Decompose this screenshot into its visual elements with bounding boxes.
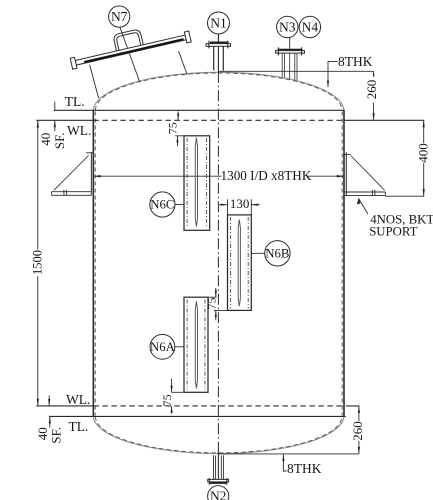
N6C inner dashed lines xyxy=(186,138,188,228)
svg-text:N2: N2 xyxy=(210,489,227,500)
label circle N6A xyxy=(150,334,175,359)
left support bracket top tick xyxy=(86,152,93,154)
nozzle N7 manway flange assembly (rotated) xyxy=(67,18,191,69)
N7 right end flange cap xyxy=(184,31,191,43)
label circle N6B xyxy=(265,241,290,266)
nozzle N7 circle xyxy=(109,6,130,27)
svg-text:SF.: SF. xyxy=(49,427,64,444)
left support bracket gusset diagonal xyxy=(54,155,89,190)
1500 bottom arrow xyxy=(37,399,39,406)
nozzle N1 circle xyxy=(208,12,230,34)
400 arrows xyxy=(423,120,425,127)
svg-text:260: 260 xyxy=(364,80,379,100)
nozzle N7 centerline leader xyxy=(120,27,140,81)
svg-text:1500: 1500 xyxy=(31,250,45,275)
nozzle N1 flange outline bar xyxy=(206,44,230,47)
N6A center pipe xyxy=(195,301,197,388)
svg-text:WL.: WL. xyxy=(67,123,91,138)
bottom tangent line TL xyxy=(49,415,346,417)
svg-text:N3: N3 xyxy=(279,20,296,35)
svg-text:TL.: TL. xyxy=(69,419,89,434)
svg-text:WL.: WL. xyxy=(66,392,90,407)
dimension 130 line segments xyxy=(219,204,227,206)
top TL label tick xyxy=(54,102,56,111)
nozzle N3/N4 flange dark bar xyxy=(278,49,303,51)
N7 left end flange cap xyxy=(70,57,77,69)
right support bracket base bolt ticks xyxy=(371,190,373,196)
vessel centerline lower solid part xyxy=(217,451,219,480)
75 N6C arrows xyxy=(177,114,179,121)
nozzle N3/N4 flange outline bar xyxy=(276,51,305,54)
nozzle N1 flange dark bar xyxy=(210,42,228,44)
N7 davit handle xyxy=(113,29,143,51)
svg-text:75: 75 xyxy=(166,122,180,134)
nozzle N7 neck left line xyxy=(90,65,99,99)
nozzle N2 circle xyxy=(208,486,229,500)
svg-text:75: 75 xyxy=(160,394,174,406)
bottom weld line WL right extension xyxy=(346,405,360,407)
nozzle N7 neck right line xyxy=(179,51,188,74)
svg-text:SF.: SF. xyxy=(52,132,67,149)
vessel centerline upper solid part xyxy=(217,34,219,72)
bottom weld line WL (dashed across vessel) xyxy=(93,405,344,407)
svg-text:N6B: N6B xyxy=(265,246,289,260)
75 bottom arrows xyxy=(171,386,173,393)
svg-text:260: 260 xyxy=(350,421,365,441)
nozzle N2 neck lines xyxy=(213,455,215,479)
N7 cover plate xyxy=(75,35,186,65)
40 bottom arrows xyxy=(48,399,50,406)
N6B inner dashed lines xyxy=(230,217,232,308)
nozzle N3/N4 neck lines xyxy=(281,53,283,77)
nozzle N1 flange bolt ticks xyxy=(208,41,210,49)
right support bracket plate xyxy=(345,152,347,195)
support leader line to 4NOS BKT SUPORT xyxy=(359,199,368,214)
dimension 75 at N6C top shafts xyxy=(177,112,179,121)
svg-text:SUPORT: SUPORT xyxy=(369,225,417,239)
bottom dished head outer curve xyxy=(93,416,344,453)
svg-text:N4: N4 xyxy=(302,20,319,35)
N6A top edge extension xyxy=(208,296,217,298)
vessel shell left wall xyxy=(92,110,94,416)
top dished head inner curve (dashed) xyxy=(95,73,342,110)
nozzle N3/N4 flange bolt ticks xyxy=(277,47,279,55)
top weld line WL (dashed across vessel) xyxy=(93,119,342,121)
svg-text:TL.: TL. xyxy=(65,94,85,109)
N6A leader xyxy=(175,346,184,348)
label 130 xyxy=(230,198,250,209)
8THK bottom leader xyxy=(283,455,286,472)
dimension 260 bottom line xyxy=(358,406,360,454)
8THK top leader xyxy=(328,61,338,86)
svg-text:1300 I/D x8THK: 1300 I/D x8THK xyxy=(221,168,312,183)
dimension 130 extension lines xyxy=(227,199,229,215)
N6C leader xyxy=(175,204,184,206)
dimension 75 at N6A bottom shafts xyxy=(171,379,173,393)
svg-text:8THK: 8THK xyxy=(338,54,373,69)
40 SF bottom dimension arrow shafts xyxy=(48,396,50,406)
bottom dished head inner curve (dashed) xyxy=(95,416,342,452)
nozzle N3 circle xyxy=(277,16,298,37)
label 260 bottom background xyxy=(353,421,363,441)
svg-text:400: 400 xyxy=(415,143,430,163)
left support bracket base bolt ticks xyxy=(63,190,65,195)
dimension 400 line xyxy=(423,120,425,196)
label 400 background xyxy=(418,143,428,163)
75 mid arrows xyxy=(215,291,217,298)
arrowheads xyxy=(37,71,425,461)
vessel shell left wall inner surface (dashed) xyxy=(94,112,96,416)
nozzle N1 neck lines xyxy=(213,46,215,70)
1500 top arrow xyxy=(37,120,39,127)
dimension 1300 I/D line xyxy=(93,175,344,177)
N6B center pipe xyxy=(238,220,240,307)
nozzle N2 flange dark bar xyxy=(210,482,227,484)
nozzle N2 flange bolt ticks xyxy=(208,478,210,485)
1300 right arrow xyxy=(337,175,344,177)
left support bracket plate xyxy=(90,152,92,195)
1300 left arrow xyxy=(93,175,100,177)
nozzle N3/N4 centerline below flange xyxy=(289,53,291,79)
top crown reference line xyxy=(218,70,373,72)
svg-text:8THK: 8THK xyxy=(287,461,322,476)
svg-text:130: 130 xyxy=(230,196,250,211)
dimension 1500 line xyxy=(37,120,39,406)
4NOS leader arrow xyxy=(357,198,361,205)
svg-text:N1: N1 xyxy=(210,16,227,31)
vessel centerline (dash-dot) xyxy=(217,72,219,451)
130 arrows xyxy=(221,204,228,206)
svg-text:N6A: N6A xyxy=(150,340,176,354)
N7 cover gasket thick line xyxy=(84,39,183,62)
vessel shell right wall inner surface (dashed) xyxy=(341,112,343,416)
label 260 top background xyxy=(367,77,377,103)
40 SF top dimension arrow shaft xyxy=(54,120,56,131)
dimension 260 top line xyxy=(373,71,375,120)
260 bottom arrows xyxy=(358,406,360,413)
internal pipe N6B rectangle xyxy=(228,215,252,311)
svg-text:N6C: N6C xyxy=(150,198,174,212)
dimension 75 between N6B and N6A shafts xyxy=(215,288,217,297)
N6B leader xyxy=(251,252,264,254)
right support bracket base plate xyxy=(344,191,385,193)
label 1300 I/D x8THK xyxy=(222,170,308,183)
260 top arrows xyxy=(373,71,375,78)
bottom weld line WL left extension xyxy=(36,405,93,407)
internal pipe N6C rectangle xyxy=(184,136,210,231)
top dished head outer curve xyxy=(93,72,344,110)
vessel shell right wall xyxy=(343,110,345,416)
svg-text:40: 40 xyxy=(38,133,53,146)
svg-text:75: 75 xyxy=(204,298,218,310)
left support bracket base plate xyxy=(52,191,92,193)
nozzle N2 flange outline bar xyxy=(208,479,229,482)
svg-text:N7: N7 xyxy=(111,9,128,24)
8THK bottom leader arrow xyxy=(282,454,284,461)
top weld line WL right extension xyxy=(344,119,424,121)
label 1500 background xyxy=(33,250,43,277)
bottom crown reference line xyxy=(218,453,359,455)
right support bracket gusset diagonal xyxy=(351,156,385,191)
N6C top edge extension xyxy=(175,135,184,137)
top weld line WL left extension xyxy=(36,119,93,121)
label circle N6C xyxy=(150,192,175,217)
top tangent line TL xyxy=(54,109,345,111)
right support bracket top tick xyxy=(344,154,350,156)
dimension 400 bottom reference line xyxy=(385,195,424,197)
N6A inner dashed lines xyxy=(186,300,188,391)
internal pipe N6A rectangle xyxy=(184,297,208,392)
N6C center pipe xyxy=(195,138,197,227)
nozzle N4 circle xyxy=(299,16,320,37)
8THK top leader arrow xyxy=(327,81,329,88)
40 top arrow (up at WL) xyxy=(54,120,56,127)
nozzle N3/N4 stem xyxy=(289,38,291,49)
N6B bottom edge extension xyxy=(214,309,228,311)
N6A bottom edge extension xyxy=(171,391,184,393)
svg-text:40: 40 xyxy=(35,427,50,440)
